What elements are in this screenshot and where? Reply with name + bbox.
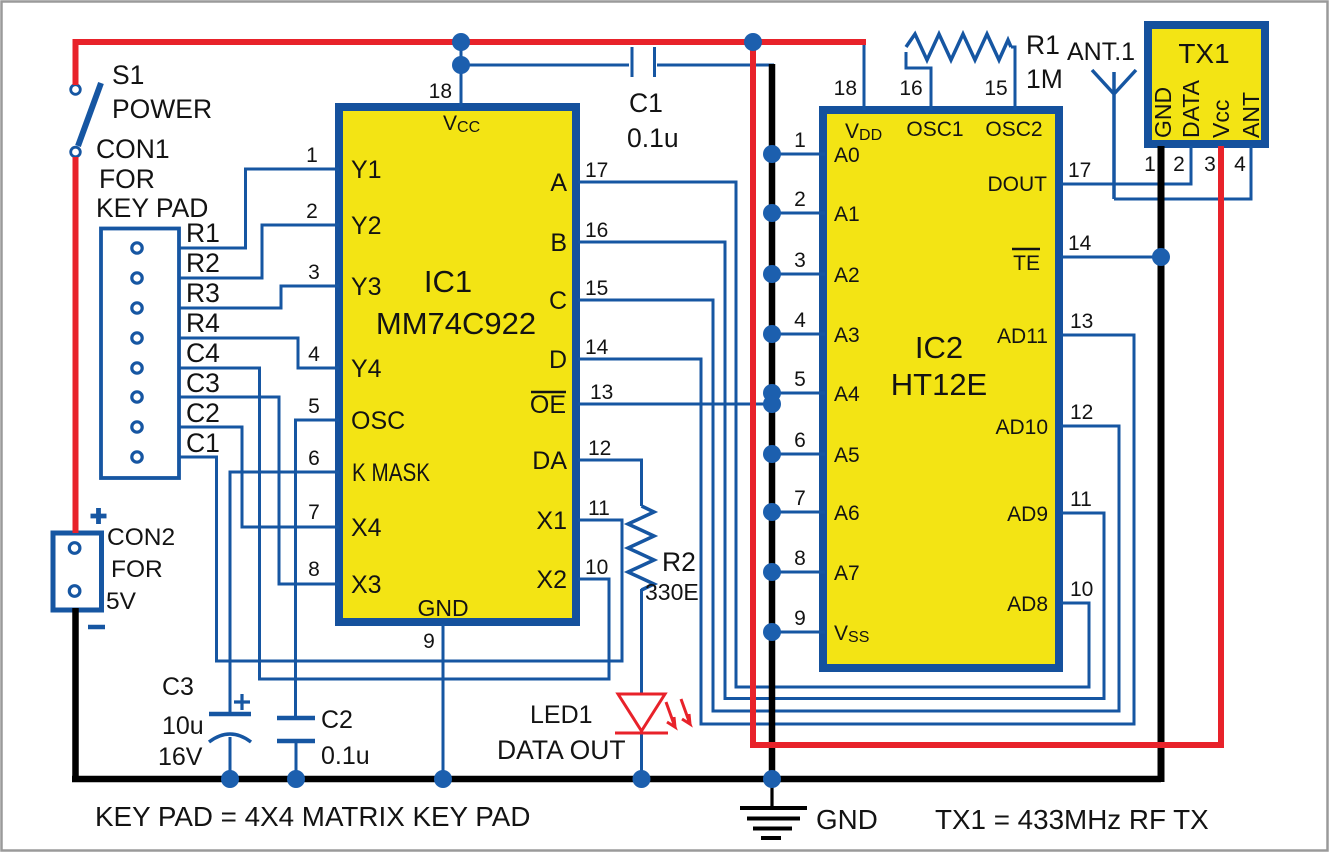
wire keypad row R4 to IC1 pin4 Y4	[179, 338, 339, 368]
svg-text:X3: X3	[351, 571, 382, 599]
capacitor C2 plates	[277, 718, 315, 741]
svg-text:AD8: AD8	[1007, 593, 1048, 616]
svg-text:C1: C1	[629, 88, 663, 118]
svg-text:4: 4	[308, 343, 320, 366]
wire IC1 pin9 GND to ground bus	[442, 624, 445, 779]
svg-text:6: 6	[794, 429, 806, 452]
wire keypad column C4 to IC1 pin10 X2	[179, 368, 609, 679]
svg-text:3: 3	[308, 261, 320, 284]
svg-text:OSC1: OSC1	[906, 118, 963, 141]
svg-text:TE: TE	[1013, 252, 1040, 275]
svg-text:C1: C1	[186, 428, 220, 458]
wire IC1 pin18 Vcc to +5V bus	[460, 40, 463, 107]
svg-text:A5: A5	[834, 444, 860, 467]
svg-text:A6: A6	[834, 502, 860, 525]
svg-text:2: 2	[1173, 153, 1185, 176]
svg-text:16: 16	[585, 219, 608, 242]
svg-text:HT12E: HT12E	[891, 367, 987, 402]
svg-text:1: 1	[1144, 153, 1156, 176]
svg-text:2: 2	[306, 200, 318, 223]
CON1 pin circles	[132, 243, 142, 462]
svg-text:TX1: TX1	[1178, 38, 1229, 69]
svg-text:R1: R1	[1026, 30, 1060, 60]
svg-text:Y1: Y1	[351, 156, 382, 184]
IC1 MM74C922 body	[339, 107, 576, 622]
switch S1 contact circles	[71, 85, 81, 95]
wire IC1 pin13 OE to ground rail	[578, 403, 774, 406]
svg-text:AD11: AD11	[997, 325, 1048, 348]
svg-text:11: 11	[1070, 488, 1092, 511]
svg-text:18: 18	[834, 77, 857, 100]
svg-text:R4: R4	[186, 308, 220, 338]
capacitor C3 lead to ground bus	[229, 737, 232, 779]
svg-text:0.1u: 0.1u	[321, 742, 370, 770]
svg-text:17: 17	[1068, 159, 1091, 182]
wire IC1 pin17 A to IC2 pin10 AD8	[578, 182, 1089, 687]
wire IC1 pin6 K MASK to capacitor C3	[230, 472, 339, 712]
svg-text:A0: A0	[834, 144, 860, 167]
svg-text:GND: GND	[417, 595, 468, 621]
wire IC2 pin2 A1 to ground rail	[770, 212, 825, 215]
svg-text:15: 15	[585, 277, 608, 300]
wire IC2 pin18 VDD to +5V bus	[863, 42, 866, 110]
wire IC1 pin14 D to IC2 pin13 AD11	[578, 335, 1134, 724]
svg-text:IC2: IC2	[915, 330, 963, 365]
svg-text:OSC2: OSC2	[985, 118, 1042, 141]
LED1 triangle	[618, 694, 665, 731]
svg-text:8: 8	[308, 558, 320, 581]
svg-text:LED1: LED1	[530, 701, 593, 729]
svg-text:12: 12	[1070, 401, 1093, 424]
svg-text:R3: R3	[186, 278, 220, 308]
svg-text:DATA: DATA	[1178, 79, 1204, 138]
wire Vcc node to capacitor C1 left	[461, 64, 629, 67]
svg-text:A4: A4	[834, 383, 860, 406]
svg-text:Y2: Y2	[351, 212, 382, 240]
svg-text:10u: 10u	[162, 712, 204, 740]
svg-text:CON2: CON2	[107, 524, 175, 551]
svg-text:X2: X2	[536, 566, 567, 594]
svg-text:1: 1	[306, 144, 318, 167]
svg-text:6: 6	[308, 447, 320, 470]
svg-text:TX1 = 433MHz RF TX: TX1 = 433MHz RF TX	[935, 804, 1209, 835]
capacitor C1 plates	[632, 47, 655, 77]
svg-text:15: 15	[984, 77, 1007, 100]
wire IC2 pin8 A7 to ground rail	[770, 571, 825, 574]
svg-text:12: 12	[588, 437, 611, 460]
capacitor C2 lead to ground bus	[295, 743, 298, 779]
wire IC1 pin5 OSC to capacitor C2	[296, 420, 340, 716]
wire IC2 pin9 Vss to ground rail	[770, 631, 825, 634]
wire IC2 pin15 OSC2 to resistor R1	[1011, 47, 1015, 110]
svg-text:4: 4	[1234, 153, 1246, 176]
svg-text:X1: X1	[536, 507, 567, 535]
wire keypad row R2 to IC1 pin2 Y2	[179, 225, 339, 278]
label plus CON2	[91, 508, 107, 524]
svg-text:10: 10	[585, 556, 608, 579]
svg-text:R2: R2	[186, 248, 220, 278]
wire IC2 pin3 A2 to ground rail	[770, 273, 825, 276]
wire IC2 pin4 A3 to ground rail	[770, 333, 825, 336]
wire keypad column C3 to IC1 pin8 X3	[179, 397, 339, 584]
svg-text:CON1: CON1	[96, 134, 170, 164]
ground symbol	[770, 779, 773, 806]
svg-text:2: 2	[794, 188, 806, 211]
CON2 pin circles	[69, 543, 80, 597]
svg-text:DOUT: DOUT	[988, 173, 1048, 196]
svg-text:AD9: AD9	[1007, 503, 1048, 526]
wire TX1 pin4 to antenna ANT.1	[1114, 146, 1251, 199]
LED1 cathode bar	[615, 732, 668, 735]
capacitor C3 positive plate	[209, 712, 251, 717]
svg-text:GND: GND	[816, 804, 878, 835]
wire keypad row R3 to IC1 pin3 Y3	[179, 286, 339, 308]
svg-text:5: 5	[794, 368, 806, 391]
wire IC2 pin14 TE to TX1 ground line	[1061, 256, 1160, 259]
wire LED1 cathode to ground bus	[640, 733, 643, 779]
svg-text:8: 8	[794, 547, 806, 570]
svg-text:16V: 16V	[158, 743, 203, 771]
svg-text:C4: C4	[186, 338, 220, 368]
svg-text:FOR: FOR	[111, 556, 163, 583]
svg-text:16: 16	[899, 77, 922, 100]
wire IC2 pin16 OSC1 to resistor R1	[906, 52, 931, 110]
svg-text:A3: A3	[834, 324, 860, 347]
svg-text:C: C	[549, 287, 567, 315]
svg-text:3: 3	[794, 249, 806, 272]
svg-text:X4: X4	[351, 514, 382, 542]
svg-text:7: 7	[794, 487, 806, 510]
svg-text:Y4: Y4	[351, 355, 382, 383]
svg-text:0.1u: 0.1u	[627, 123, 679, 153]
svg-text:3: 3	[1204, 153, 1216, 176]
svg-text:1: 1	[794, 129, 806, 152]
IC2 HT12E body	[823, 110, 1059, 668]
wire IC1 pin15 C to IC2 pin12 AD10	[578, 300, 1119, 711]
svg-text:OSC: OSC	[351, 407, 405, 435]
svg-text:A1: A1	[834, 203, 860, 226]
svg-text:C3: C3	[162, 673, 194, 701]
svg-text:OE: OE	[530, 391, 566, 419]
LED1 light arrows	[666, 702, 675, 727]
label minus CON2	[88, 625, 105, 630]
svg-text:IC1: IC1	[424, 264, 472, 299]
wire IC2 pin1 A0 to ground rail	[770, 153, 825, 156]
+5V top red bus	[73, 42, 867, 533]
TX1 pin1 GND black line	[1158, 146, 1165, 782]
svg-text:A7: A7	[834, 562, 860, 585]
svg-text:S1: S1	[112, 60, 144, 90]
svg-text:7: 7	[308, 501, 320, 524]
svg-text:Vcc: Vcc	[1208, 100, 1234, 138]
svg-text:D: D	[549, 346, 567, 374]
svg-text:13: 13	[1070, 310, 1093, 333]
svg-text:A2: A2	[834, 264, 860, 287]
svg-text:14: 14	[1068, 232, 1092, 255]
svg-text:14: 14	[585, 336, 609, 359]
resistor R2 zigzag	[628, 506, 654, 590]
svg-text:DA: DA	[532, 447, 567, 475]
svg-text:330E: 330E	[645, 579, 699, 605]
ground bus black	[72, 608, 1161, 779]
svg-text:9: 9	[423, 630, 435, 653]
svg-text:13: 13	[590, 381, 613, 404]
connector CON2 body	[53, 533, 102, 610]
wire IC2 pin17 DOUT to TX1 pin2 DATA	[1061, 146, 1191, 184]
resistor R1 zigzag	[906, 34, 1011, 60]
svg-text:18: 18	[429, 80, 452, 103]
svg-text:AD10: AD10	[995, 416, 1048, 439]
svg-text:R1: R1	[186, 218, 220, 248]
+5V red drop to CON2	[73, 42, 79, 85]
svg-text:DATA OUT: DATA OUT	[497, 735, 626, 765]
connector CON1 body	[101, 229, 179, 479]
wire keypad row R1 to IC1 pin1 Y1	[179, 169, 339, 248]
svg-text:R2: R2	[662, 547, 696, 577]
ground rail center black	[769, 64, 776, 779]
wire IC2 pin6 A5 to ground rail	[770, 453, 825, 456]
svg-text:5V: 5V	[106, 588, 137, 615]
wire IC1 pin12 DA to resistor R2	[578, 460, 642, 506]
switch S1 lever	[78, 83, 101, 146]
svg-text:GND: GND	[1150, 87, 1176, 138]
svg-text:A: A	[550, 169, 567, 197]
antenna ANT.1	[1092, 70, 1136, 199]
svg-text:C2: C2	[321, 706, 353, 734]
svg-text:C3: C3	[186, 368, 220, 398]
wire capacitor C1 right to ground rail	[657, 64, 774, 67]
svg-text:ANT.1: ANT.1	[1067, 38, 1135, 66]
wire IC2 pin5 A4 to ground rail	[770, 392, 825, 395]
svg-text:C2: C2	[186, 398, 220, 428]
wire IC1 pin16 B to IC2 pin11 AD9	[578, 242, 1104, 699]
svg-text:MM74C922: MM74C922	[376, 306, 536, 341]
svg-text:FOR: FOR	[99, 164, 155, 194]
svg-text:17: 17	[585, 159, 608, 182]
capacitor C3 curved plate	[209, 734, 251, 742]
wire IC2 pin7 A6 to ground rail	[770, 511, 825, 514]
svg-text:B: B	[550, 229, 567, 257]
svg-text:10: 10	[1070, 578, 1093, 601]
svg-text:ANT: ANT	[1238, 92, 1264, 138]
svg-text:4: 4	[794, 309, 806, 332]
svg-text:KEY PAD = 4X4 MATRIX KEY PAD: KEY PAD = 4X4 MATRIX KEY PAD	[95, 801, 530, 832]
red wire +5V to TX1 pin3 Vcc	[753, 42, 1221, 745]
svg-text:5: 5	[308, 395, 320, 418]
TX1 module body	[1148, 25, 1265, 144]
wire resistor R2 to LED1 anode	[640, 589, 643, 693]
wire keypad column C1 to IC1 pin11 X1	[179, 457, 622, 661]
svg-text:Y3: Y3	[351, 273, 382, 301]
wire keypad column C2 to IC1 pin7 X4	[179, 427, 339, 527]
svg-text:11: 11	[588, 497, 610, 520]
svg-text:K MASK: K MASK	[352, 459, 430, 487]
svg-text:9: 9	[794, 607, 806, 630]
capacitor C3 polarity plus	[234, 694, 250, 710]
svg-text:1M: 1M	[1026, 64, 1063, 94]
svg-text:POWER: POWER	[112, 94, 212, 124]
